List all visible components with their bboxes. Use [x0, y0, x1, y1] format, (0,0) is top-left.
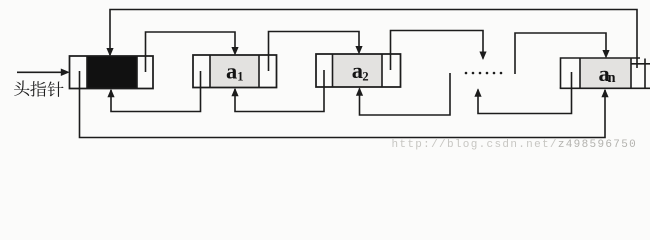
svg-text:2: 2 [362, 69, 368, 83]
svg-text:1: 1 [237, 69, 243, 83]
svg-text:n: n [608, 70, 616, 86]
svg-text:a: a [352, 58, 363, 83]
svg-text:http://blog.csdn.net/z49859675: http://blog.csdn.net/z498596750 [392, 139, 638, 151]
svg-text:a: a [226, 58, 237, 83]
